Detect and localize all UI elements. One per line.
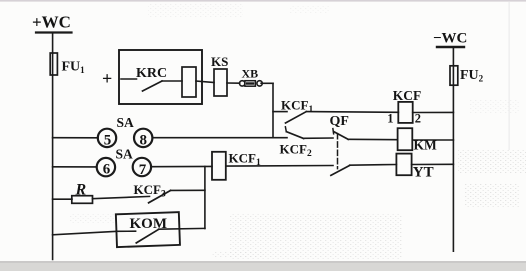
- wire KCF3 to branch: [171, 189, 205, 191]
- wire branch down from row B: [204, 167, 206, 229]
- svg-text:+: +: [102, 69, 112, 89]
- coil KCF1: [212, 152, 226, 180]
- wire QF to coil KM: [348, 138, 397, 140]
- svg-text:YT: YT: [413, 165, 434, 181]
- svg-text:KOM: KOM: [130, 216, 168, 232]
- wire SA8 to node A: [153, 137, 287, 139]
- resistor R: [72, 196, 93, 204]
- bus +WC bar: [36, 31, 72, 33]
- coil KM: [398, 128, 413, 150]
- switch SA contact 6: [97, 158, 115, 176]
- svg-text:QF: QF: [330, 114, 349, 129]
- wire coil YT to right bus: [412, 163, 454, 165]
- svg-text:KRC: KRC: [136, 66, 167, 81]
- contact KCF3 blade: [149, 190, 171, 202]
- fuse FU1: [50, 53, 57, 75]
- svg-text:KCF: KCF: [393, 88, 422, 103]
- wire KOM to branch: [159, 227, 205, 230]
- svg-text:7: 7: [139, 162, 147, 178]
- relay KS coil: [214, 69, 227, 96]
- coil YT: [396, 154, 411, 176]
- switch SA contact 8: [134, 129, 152, 147]
- svg-text:6: 6: [103, 162, 111, 178]
- svg-text:1: 1: [387, 111, 393, 125]
- contact KOM blade: [136, 229, 158, 243]
- wire SA7 to coil KCF1: [151, 165, 212, 167]
- svg-text:5: 5: [104, 132, 112, 148]
- wire row B from bus to SA6: [53, 166, 97, 168]
- wire KRC contact left terminal: [121, 78, 137, 80]
- relay box KRC: [119, 50, 202, 104]
- wire QF to coil YT: [350, 164, 397, 167]
- contact QF (KM row) blade: [334, 132, 348, 140]
- wire row D from bus to R: [53, 198, 72, 200]
- wire R to KCF3: [93, 196, 150, 198]
- wire KOM contact left: [116, 230, 135, 232]
- bus -WC bar: [437, 46, 464, 48]
- wire coil to box edge: [196, 81, 214, 83]
- svg-text:SA: SA: [117, 115, 135, 130]
- contact KCF2 blade: [286, 132, 303, 139]
- contact QF (YT row) blade: [331, 165, 350, 175]
- wire left bus vertical: [52, 33, 54, 260]
- svg-text:2: 2: [415, 112, 421, 126]
- wire KCF1 branch from XB line: [273, 111, 287, 113]
- coil KCF: [398, 102, 412, 123]
- contact KCF1 blade: [286, 112, 307, 123]
- wire blade to coil: [162, 80, 182, 82]
- wire coil KCF to right bus: [413, 111, 454, 113]
- contactor box KOM: [116, 212, 180, 247]
- node tick KCF2 fixed contact: [284, 127, 287, 132]
- svg-text:XB: XB: [242, 67, 259, 81]
- svg-text:SA: SA: [116, 147, 134, 162]
- switch SA contact 5: [98, 129, 116, 147]
- wire KS to XB: [227, 82, 240, 84]
- svg-text:R: R: [75, 182, 87, 199]
- contact KRC blade: [143, 81, 163, 91]
- wire corner down to node A: [272, 83, 274, 137]
- svg-text:KS: KS: [211, 54, 228, 69]
- link XB: [240, 81, 245, 86]
- wire KCF1 to coil KCF pin1: [306, 111, 398, 114]
- fuse FU2: [450, 66, 458, 85]
- svg-text:8: 8: [140, 132, 148, 148]
- switch SA contact 7: [133, 158, 151, 176]
- wire KCF2 to QF: [304, 137, 333, 139]
- wire XB to corner: [261, 82, 273, 84]
- svg-text:KM: KM: [414, 138, 438, 153]
- svg-text:−WC: −WC: [433, 30, 467, 46]
- coil KRC: [182, 67, 196, 97]
- wire coil KCF1 to QF: [226, 165, 333, 168]
- linkage QF dashed: [337, 134, 339, 169]
- contact QF (KM row) fixed tick: [332, 129, 335, 134]
- wire row E from bus to KOM: [53, 231, 117, 234]
- wire coil KM to right bus: [412, 139, 453, 141]
- wire row A from bus to SA5: [53, 137, 98, 139]
- wire right bus vertical: [452, 47, 454, 251]
- svg-text:+WC: +WC: [32, 13, 71, 32]
